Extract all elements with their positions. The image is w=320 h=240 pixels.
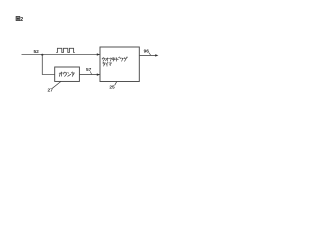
タ xyxy=(103,62,106,66)
wire: counter to watchdog xyxy=(79,74,99,76)
arrowhead into watchdog (counter) xyxy=(97,73,100,76)
wire: output line xyxy=(139,54,156,56)
マ xyxy=(109,63,112,66)
svg-text:2: 2 xyxy=(20,17,23,23)
counter label カウンタ xyxy=(59,72,74,77)
グ xyxy=(124,57,128,62)
ン xyxy=(68,73,71,77)
leader line for 96 xyxy=(149,53,151,56)
watchdog label line2 タイマ xyxy=(103,62,112,66)
leader line for 57 xyxy=(90,71,91,74)
ッ xyxy=(109,58,112,61)
svg-text:27: 27 xyxy=(48,88,54,94)
leader line for 27 xyxy=(52,81,61,88)
タ xyxy=(72,72,75,77)
ド xyxy=(117,57,121,61)
arrowhead output xyxy=(155,54,158,56)
ッ xyxy=(120,58,123,61)
arrowhead into watchdog (input) xyxy=(97,53,100,56)
clock waveform symbol xyxy=(56,48,75,52)
figure label 図2 xyxy=(16,17,20,21)
ウ xyxy=(102,57,104,61)
svg-text:96: 96 xyxy=(144,48,150,54)
counter box xyxy=(55,67,80,81)
チ xyxy=(112,58,115,62)
svg-text:25: 25 xyxy=(109,85,115,91)
wire: input signal line xyxy=(22,54,100,56)
カ xyxy=(59,72,62,76)
watchdog label line1 ウォッチドッグ xyxy=(102,57,127,62)
svg-text:52: 52 xyxy=(34,49,40,55)
イ xyxy=(106,62,108,66)
ウ xyxy=(64,72,67,77)
node junction dot xyxy=(41,54,43,56)
ォ xyxy=(106,58,109,61)
leader line for 25 xyxy=(115,82,117,86)
watchdog timer box xyxy=(100,47,139,82)
wire: branch down to counter xyxy=(42,55,54,75)
